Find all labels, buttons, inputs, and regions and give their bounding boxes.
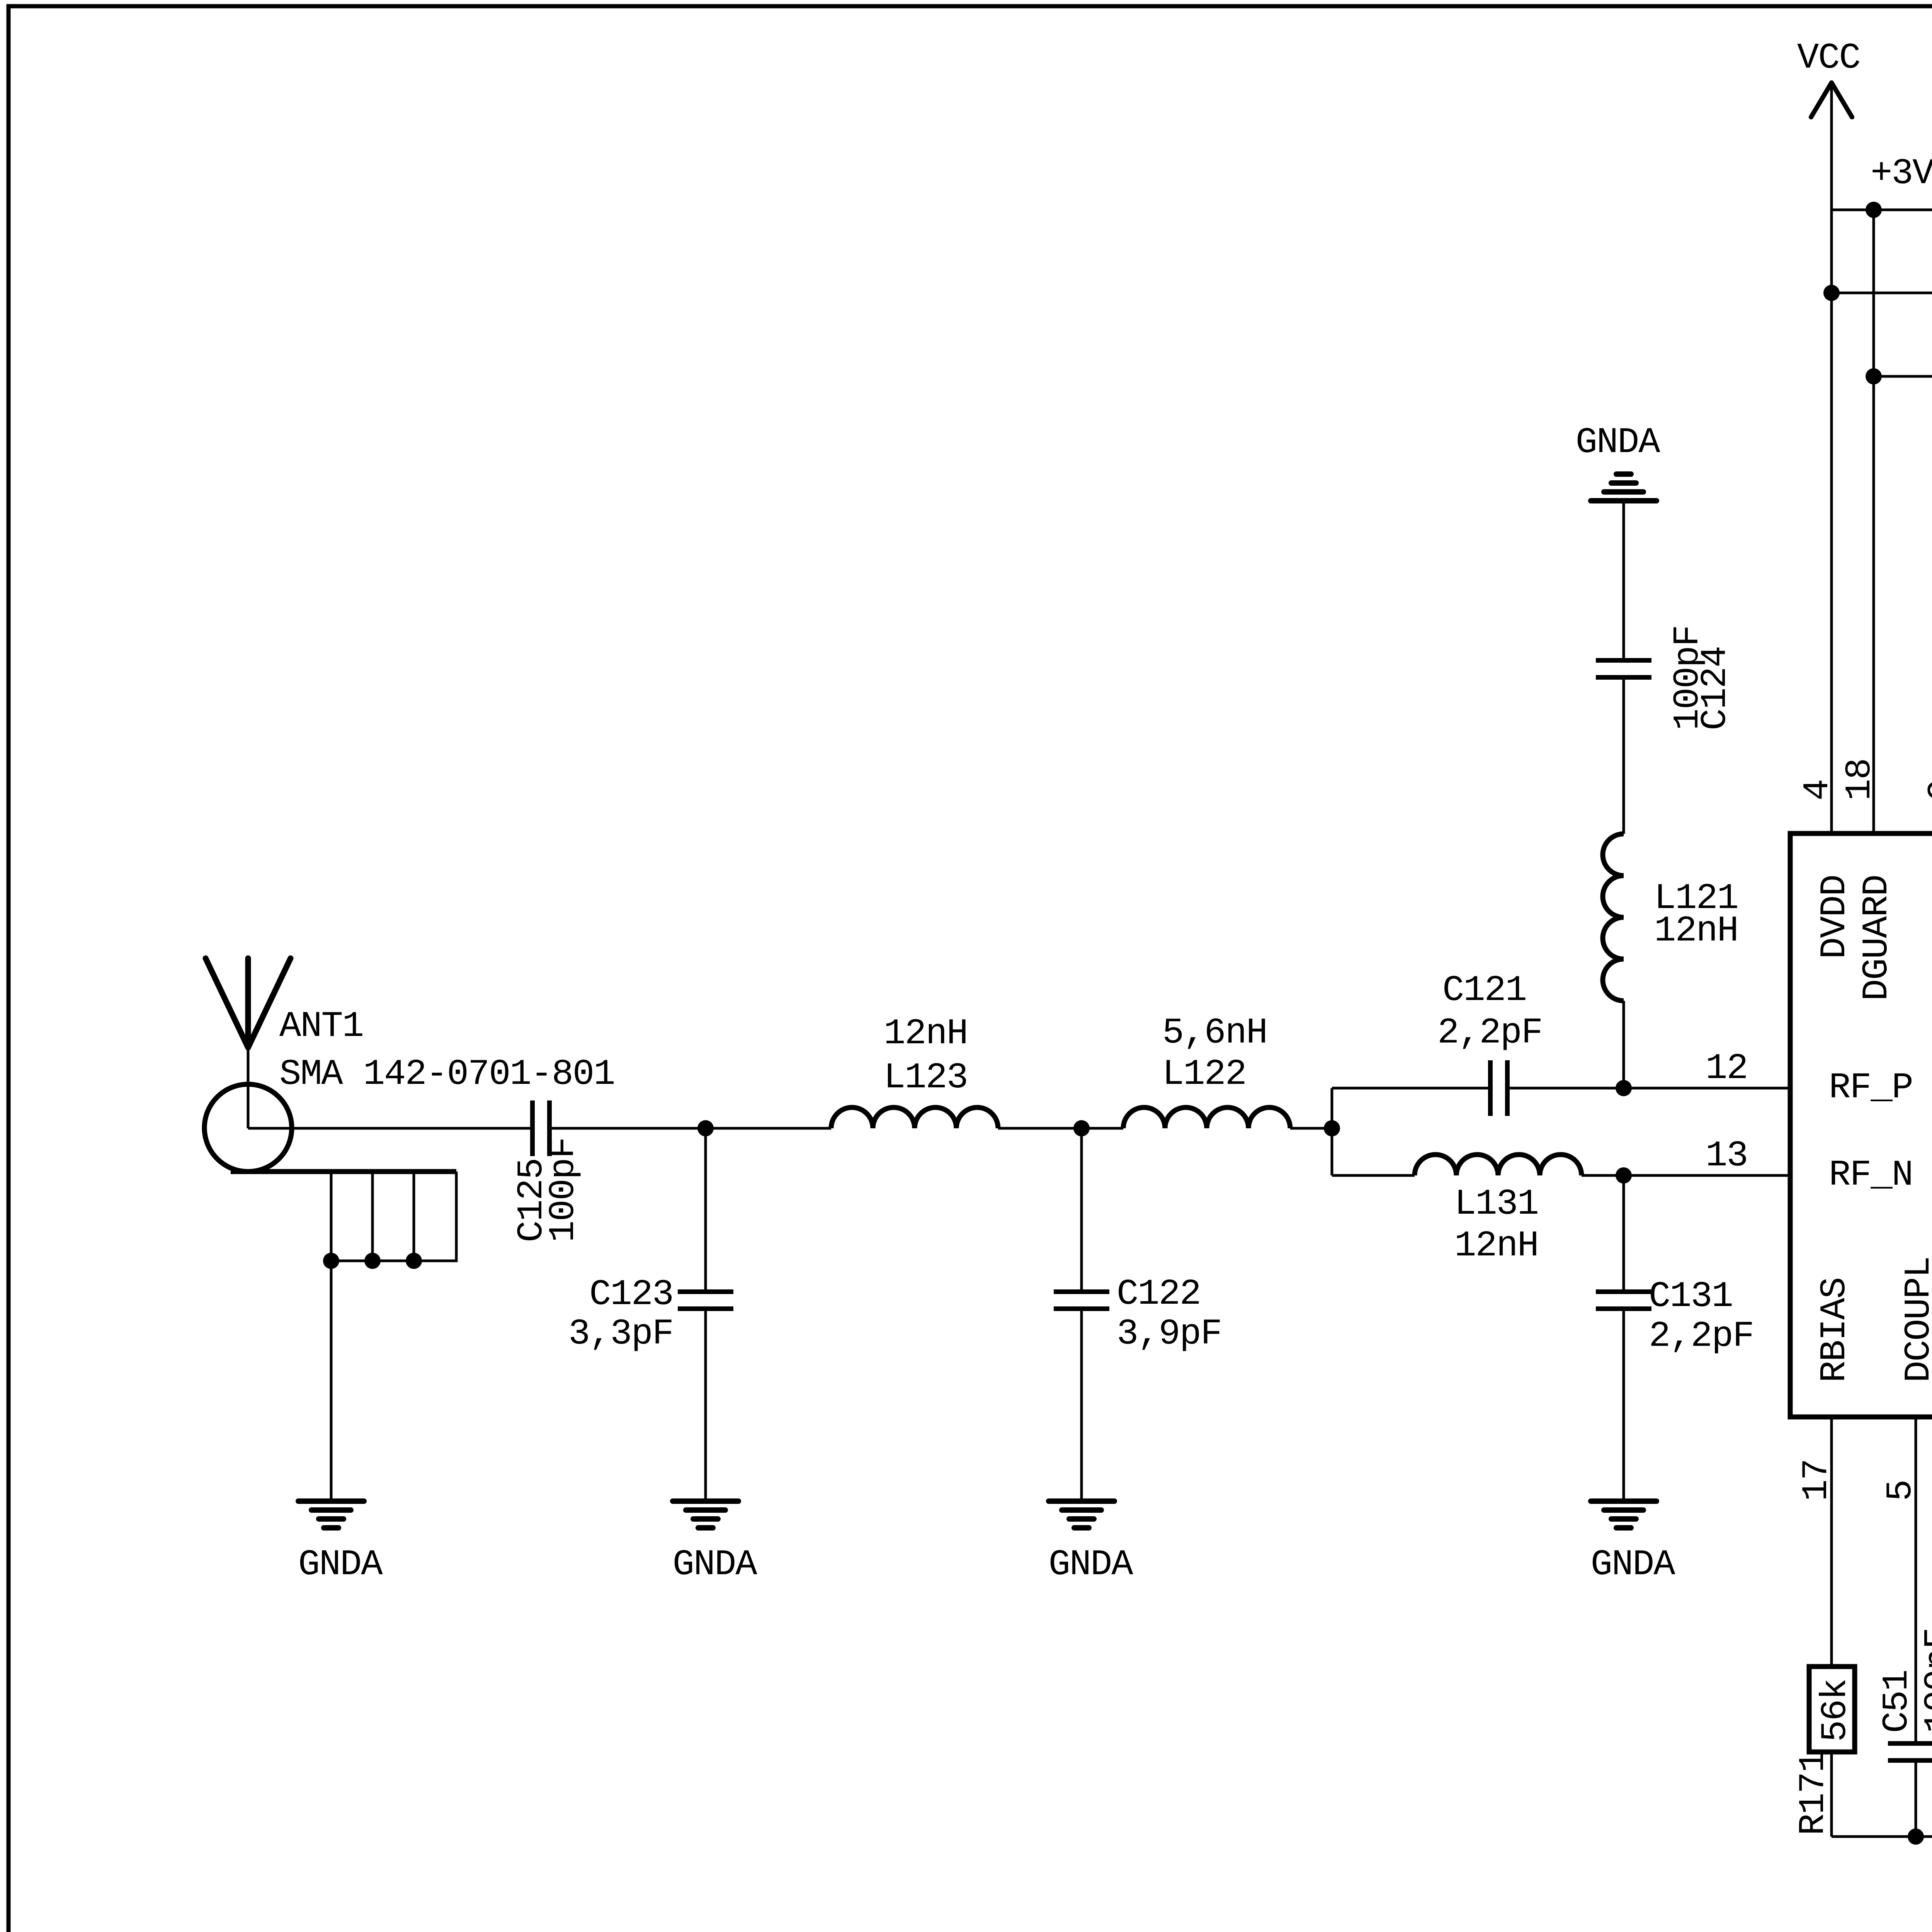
ground GNDA antenna (298, 1498, 364, 1504)
wire L122 to node3 (1290, 1127, 1332, 1130)
svg-text:100pF: 100pF (543, 1138, 584, 1242)
wire shield stub 3 (413, 1172, 415, 1261)
wire DCOUPL pin 5 (1915, 1417, 1917, 1743)
inductor L121 (1603, 834, 1624, 1001)
wire R171 to bus (1830, 1752, 1833, 1837)
wire C124 to GNDA (1622, 501, 1625, 660)
junction C41 tap (1823, 285, 1840, 301)
capacitor C122 (1054, 1289, 1109, 1294)
junction bus DGUARD (1866, 202, 1882, 218)
svg-text:56k: 56k (1815, 1679, 1856, 1742)
ground GNDA C131 (1591, 1498, 1656, 1504)
svg-text:4: 4 (1798, 780, 1838, 801)
wire C123 to GNDA (704, 1309, 707, 1498)
wire L131 to node RF_N (1582, 1174, 1624, 1177)
wire RF_P branch (1332, 1087, 1488, 1090)
ground GNDA C123 (673, 1498, 738, 1504)
wire node2 to L122 (1082, 1127, 1123, 1130)
svg-text:DCOUPL: DCOUPL (1899, 1257, 1932, 1383)
capacitor C124 (1596, 658, 1651, 663)
wire shield drop (331, 1172, 456, 1261)
svg-text:9: 9 (1922, 780, 1932, 801)
wire node RF_P to pin 12 (1624, 1087, 1790, 1090)
junction node2 (1073, 1120, 1090, 1136)
wire shield to GNDA (330, 1261, 333, 1498)
svg-text:C121: C121 (1442, 970, 1526, 1011)
svg-text:C51: C51 (1877, 1670, 1918, 1733)
svg-text:12nH: 12nH (884, 1014, 968, 1054)
svg-text:DGUARD: DGUARD (1857, 875, 1898, 1001)
wire SMA shield (231, 1169, 456, 1174)
wire RBIAS pin 17 (1830, 1417, 1833, 1667)
svg-text:L123: L123 (884, 1058, 968, 1099)
wire L121 to C124 (1622, 677, 1625, 834)
wire node1 to C123 (704, 1128, 707, 1292)
wire C181 left (1874, 375, 1932, 378)
junction node RF_N (1616, 1167, 1632, 1184)
svg-text:R171: R171 (1793, 1752, 1834, 1835)
junction shield c (406, 1253, 422, 1269)
supply VCC arrow (1811, 83, 1832, 117)
capacitor C51 (1888, 1741, 1932, 1746)
svg-text:5,6nH: 5,6nH (1162, 1013, 1267, 1054)
wire node2 to C122 (1080, 1128, 1083, 1292)
antenna ANT1 (206, 958, 248, 1048)
junction node1 (697, 1120, 714, 1136)
svg-text:GNDA: GNDA (1591, 1544, 1676, 1585)
wire node RF_N to pin 13 (1624, 1174, 1790, 1177)
inductor L123 (831, 1107, 998, 1128)
inductor L131 (1415, 1155, 1582, 1175)
svg-text:2,2pF: 2,2pF (1649, 1316, 1753, 1357)
svg-text:3,3pF: 3,3pF (568, 1314, 673, 1355)
svg-text:VCC: VCC (1797, 38, 1860, 79)
wire RF_N branch (1332, 1174, 1415, 1177)
ground GNDA top (1591, 498, 1656, 503)
svg-text:RBIAS: RBIAS (1815, 1278, 1855, 1383)
capacitor C121 (1488, 1060, 1493, 1116)
svg-text:GNDA: GNDA (1576, 422, 1661, 463)
capacitor C125 (530, 1100, 535, 1156)
svg-text:GNDA: GNDA (673, 1544, 758, 1585)
wire C51 to bus (1915, 1760, 1917, 1837)
svg-text:12nH: 12nH (1654, 911, 1738, 952)
wire shield stub 1 (330, 1172, 333, 1261)
svg-text:L131: L131 (1454, 1184, 1538, 1225)
IC U IC1 CC1101 box (1790, 833, 1932, 1417)
wire C121 to node RF_P (1509, 1087, 1624, 1090)
wire antenna feed (247, 1048, 250, 1128)
junction bus C51 (1908, 1828, 1924, 1845)
svg-text:100nF: 100nF (1918, 1628, 1932, 1733)
svg-text:+3V3: +3V3 (1871, 153, 1932, 194)
wire ground bus (1832, 1835, 1932, 1838)
svg-text:18: 18 (1840, 759, 1881, 801)
wire C131 to GNDA (1622, 1309, 1625, 1498)
svg-text:L122: L122 (1162, 1054, 1246, 1095)
wire ANT1 to C125 (248, 1127, 530, 1130)
svg-text:RF_P: RF_P (1829, 1068, 1913, 1109)
svg-text:GNDA: GNDA (1049, 1544, 1134, 1585)
junction node RF_P (1616, 1080, 1632, 1096)
svg-text:C131: C131 (1649, 1276, 1733, 1317)
wire C41 left (1832, 292, 1932, 294)
svg-text:12nH: 12nH (1454, 1226, 1538, 1267)
wire node1 to L123 (706, 1127, 831, 1130)
wire node3 split (1331, 1088, 1333, 1175)
svg-text:RF_N: RF_N (1829, 1155, 1913, 1196)
wire node RF_N to C131 (1622, 1175, 1625, 1292)
wire C122 to GNDA (1080, 1309, 1083, 1498)
junction node3 (1324, 1120, 1340, 1136)
wire shield stub 2 (371, 1172, 374, 1261)
svg-text:13: 13 (1706, 1136, 1747, 1177)
ground GNDA C122 (1049, 1498, 1114, 1504)
svg-text:GNDA: GNDA (298, 1544, 383, 1585)
wire node RF_P to L121 (1622, 1001, 1625, 1088)
junction C181 tap (1866, 368, 1882, 384)
junction shield a (323, 1253, 339, 1269)
wire +3V3 bus (1832, 209, 1932, 211)
resistor R171 (1809, 1667, 1855, 1752)
wire DGUARD pin 18 (1872, 210, 1875, 833)
junction shield b (364, 1253, 381, 1269)
inductor L122 (1123, 1107, 1290, 1128)
svg-text:SMA 142-0701-801: SMA 142-0701-801 (279, 1054, 614, 1095)
svg-text:DVDD: DVDD (1815, 875, 1855, 959)
wire L123 to node2 (998, 1127, 1082, 1130)
svg-text:3,9pF: 3,9pF (1117, 1314, 1221, 1355)
wire VCC to DVDD pin 4 (1830, 85, 1833, 833)
svg-text:ANT1: ANT1 (279, 1006, 363, 1047)
svg-text:C123: C123 (589, 1274, 673, 1315)
capacitor C123 (678, 1289, 733, 1294)
svg-text:C122: C122 (1117, 1274, 1201, 1315)
capacitor C131 (1596, 1289, 1651, 1294)
wire C125 to node1 (552, 1127, 706, 1130)
svg-text:12: 12 (1706, 1048, 1747, 1089)
svg-text:2,2pF: 2,2pF (1437, 1013, 1542, 1054)
svg-text:C124: C124 (1695, 646, 1736, 730)
